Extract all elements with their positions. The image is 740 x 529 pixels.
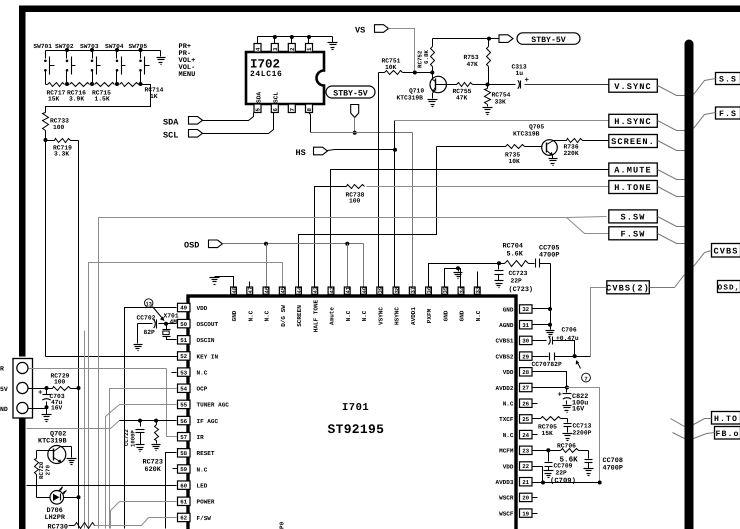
node R753 top junction <box>487 37 491 41</box>
svg-text:49: 49 <box>180 305 187 312</box>
resistor R735 <box>437 145 543 166</box>
node AVDD2 junction <box>565 386 569 390</box>
svg-text:HALF TONE: HALF TONE <box>312 299 319 332</box>
svg-text:4: 4 <box>255 47 262 51</box>
wire STBY flag drop <box>354 118 356 133</box>
op-amp U I701 ST92195 body <box>188 296 516 529</box>
svg-text:AGND: AGND <box>499 322 514 329</box>
page border left bar lower <box>19 419 26 529</box>
svg-text:LH2PR: LH2PR <box>45 514 66 522</box>
svg-text:CVBS: CVBS <box>713 246 738 256</box>
svg-text:KTC319B: KTC319B <box>397 95 424 102</box>
svg-text:SCREEN: SCREEN <box>296 305 303 327</box>
wire RC719 bus vertical <box>78 141 80 529</box>
I702 top pin 3 <box>271 37 279 53</box>
wire X701 to OSCIN <box>167 337 177 340</box>
switch SW705 <box>129 43 150 84</box>
svg-text:270: 270 <box>45 465 52 476</box>
svg-text:100: 100 <box>349 198 361 205</box>
svg-text:SCREEN.: SCREEN. <box>611 137 655 147</box>
svg-text:N.C: N.C <box>503 401 514 408</box>
node box S.SW <box>609 210 658 223</box>
I702 top pin 2 <box>288 37 296 53</box>
wire HSYNC line <box>395 121 609 287</box>
ground CC713 <box>563 434 573 441</box>
wire OCP net <box>110 389 177 529</box>
svg-text:IF AGC: IF AGC <box>197 418 219 425</box>
wire KEY-IN vertical from RC733 <box>45 141 47 357</box>
I701 left pin 62 F/SW <box>178 513 212 522</box>
svg-text:2: 2 <box>289 47 296 51</box>
wire pin24 stub <box>533 434 538 436</box>
svg-text:57: 57 <box>180 434 187 441</box>
resistor R736 <box>557 139 583 157</box>
node OSCOUT junction <box>164 322 168 326</box>
page border left bar upper <box>19 6 26 357</box>
crystal X701 <box>163 312 179 336</box>
resistor RC752 <box>417 39 435 73</box>
svg-text:4700P: 4700P <box>539 252 559 260</box>
svg-text:STBY-5V: STBY-5V <box>333 90 367 99</box>
I701 right pin 20 WSCR <box>499 493 532 502</box>
wire SCREEN into bus <box>658 141 685 151</box>
I702 bottom pin 6 <box>271 104 279 113</box>
svg-text:AVDD2: AVDD2 <box>495 385 513 392</box>
resistor RC754 <box>485 85 511 107</box>
svg-text:CC70782P: CC70782P <box>532 361 562 368</box>
wire LED to bus <box>64 497 79 499</box>
ground C703 <box>42 409 52 422</box>
svg-text:3.9K: 3.9K <box>69 96 84 103</box>
I701 right pin 27 AVDD2 <box>495 383 532 392</box>
capacitor CC722 <box>123 421 145 448</box>
svg-text:VDD: VDD <box>503 369 514 376</box>
resistor R753 <box>464 39 491 85</box>
svg-text:23: 23 <box>522 448 529 455</box>
svg-text:100: 100 <box>53 124 65 131</box>
svg-text:47K: 47K <box>467 61 479 68</box>
resistor RC751 <box>379 57 415 74</box>
svg-text:V.SYNC: V.SYNC <box>614 82 652 92</box>
switch SW701 <box>33 43 54 84</box>
I702 bottom pin 7 <box>288 104 296 113</box>
svg-text:16V: 16V <box>51 405 63 412</box>
node VS junction <box>413 71 435 75</box>
key labels PR+ PR- VOL+ VOL- MENU <box>179 43 196 79</box>
wire STBY top rail <box>433 38 499 40</box>
svg-text:16V: 16V <box>572 406 585 414</box>
wire MCFM line <box>533 450 549 452</box>
svg-text:21: 21 <box>522 479 529 486</box>
diode D706 LED <box>45 487 67 522</box>
svg-text:RC754: RC754 <box>492 92 511 99</box>
svg-text:GND: GND <box>503 306 514 313</box>
I701 top pin 36 PXFM <box>426 286 433 323</box>
svg-text:POWER: POWER <box>197 499 215 506</box>
switch SW702 <box>55 43 76 84</box>
svg-text:7: 7 <box>584 375 587 382</box>
net STBY-5V flag right <box>499 33 580 45</box>
node box CVBS(2) <box>606 281 650 294</box>
I701 right pin 21 AVDD3 <box>495 478 532 487</box>
wire TUNER AGC net <box>106 405 177 529</box>
switch SW704 <box>105 43 126 84</box>
svg-text:2200P: 2200P <box>573 429 592 436</box>
svg-text:N.C: N.C <box>503 432 514 439</box>
svg-text:Q710: Q710 <box>409 88 424 95</box>
svg-text:WSCF: WSCF <box>499 510 514 517</box>
svg-text:31: 31 <box>522 322 529 329</box>
wire A.MUTE into bus <box>658 170 685 180</box>
I701 left pin 61 POWER <box>178 497 215 506</box>
wire AVDD2 line <box>533 387 567 389</box>
resistor RC733 <box>43 113 70 141</box>
svg-text:A.MUTE: A.MUTE <box>614 166 652 176</box>
ground CC708 <box>584 469 594 476</box>
label bottom pin marker <box>279 521 286 529</box>
svg-text:54: 54 <box>180 385 187 392</box>
wire CC705 down <box>550 264 552 330</box>
svg-text:53: 53 <box>180 369 187 376</box>
wire HS to HSYNC vertical <box>328 150 395 151</box>
svg-text:F/SW: F/SW <box>197 515 212 522</box>
svg-text:R753: R753 <box>464 54 479 61</box>
I701 left pin 50 OSCOUT <box>178 319 219 328</box>
I702 top pin 4 <box>254 37 262 53</box>
svg-text:37: 37 <box>410 287 417 294</box>
svg-text:HSYNC: HSYNC <box>394 307 401 325</box>
I701 top pin 37 AVDD1 <box>409 287 416 325</box>
svg-text:8: 8 <box>306 108 313 112</box>
wire I702 top rail <box>258 35 333 39</box>
resistor RC715 <box>92 83 115 103</box>
svg-text:7: 7 <box>289 108 296 112</box>
svg-text:Q705: Q705 <box>529 124 544 131</box>
wire SCL to I702 pin6 <box>203 113 274 134</box>
wire S.SW into bus <box>658 217 685 227</box>
wire F.SW into bus <box>658 234 685 244</box>
node box SCREEN. <box>609 135 658 148</box>
svg-text:59: 59 <box>180 466 187 473</box>
capacitor CC723 <box>495 264 533 295</box>
wire 5V to RC729 <box>29 388 47 390</box>
capacitor CC709 <box>545 451 573 477</box>
wire IF AGC line <box>120 420 177 422</box>
svg-text:55: 55 <box>180 402 187 409</box>
ground RC723 <box>152 445 161 451</box>
capacitor CC702 <box>137 315 167 336</box>
svg-text:42: 42 <box>328 286 335 293</box>
svg-text:H.TONE: H.TONE <box>614 183 652 193</box>
node box V.SYNC <box>609 79 658 92</box>
I701 top pin 43 HALF TONE <box>312 286 319 332</box>
node RC729 bus junction <box>77 386 81 390</box>
wire IF AGC jog <box>27 421 120 429</box>
svg-text:61: 61 <box>180 499 187 506</box>
I701 left pin 57 IR <box>178 433 205 442</box>
node HS junction <box>393 148 397 152</box>
node gnd junction <box>45 405 49 409</box>
I701 left pin 51 OSCIN <box>178 336 215 345</box>
svg-text:AVDD1: AVDD1 <box>410 307 417 325</box>
node box F.SW right <box>694 107 740 129</box>
I701 top pin 34 GND <box>458 286 465 321</box>
svg-text:SW705: SW705 <box>129 43 148 50</box>
node RC723 junction <box>154 419 158 423</box>
resistor RC755 <box>447 83 488 102</box>
wire VSYNC vertical to pin39 <box>378 73 380 287</box>
node SCL flag <box>163 130 203 141</box>
svg-text:30: 30 <box>522 338 529 345</box>
svg-text:27: 27 <box>522 385 529 392</box>
ground Q702 <box>67 459 77 465</box>
node MCFM junction <box>546 448 550 452</box>
op-amp U I702 24LC16 EEPROM body <box>246 52 324 104</box>
wire H.SYNC into bus <box>658 121 685 131</box>
I701 left pin 52 KEY IN <box>178 352 219 361</box>
I701 top pin 41 N.C <box>344 286 351 321</box>
svg-text:22P: 22P <box>511 278 523 285</box>
svg-text:KTC319B: KTC319B <box>513 131 540 138</box>
I701 top pin 46 N.C <box>263 286 270 321</box>
I701 left pin 49 VDD <box>178 303 208 312</box>
svg-text:5.6K: 5.6K <box>507 250 524 258</box>
svg-text:5: 5 <box>255 108 262 112</box>
I701 left pin 53 N.C <box>178 368 208 377</box>
svg-text:52: 52 <box>180 353 187 360</box>
wire V.SYNC into bus <box>658 86 685 96</box>
svg-text:S.S: S.S <box>719 76 737 85</box>
wire F/SW net <box>95 518 177 526</box>
resistor RC729 <box>47 372 79 390</box>
svg-text:1000P: 1000P <box>129 430 136 447</box>
wire CVBS(2) into bus <box>650 275 685 288</box>
I701 right pin 32 GND <box>503 305 532 314</box>
svg-text:46: 46 <box>263 286 270 293</box>
svg-text:SCL: SCL <box>163 130 178 140</box>
svg-text:34: 34 <box>458 286 465 293</box>
svg-text:P0: P0 <box>279 521 286 529</box>
svg-text:+: + <box>38 389 43 397</box>
svg-text:H.SYNC: H.SYNC <box>614 117 652 127</box>
wire FSW fork diagonal <box>567 218 609 234</box>
node box H.TONE <box>609 181 658 194</box>
ground Q705 emitter <box>549 156 558 166</box>
svg-text:5V: 5V <box>0 386 8 393</box>
transistor Q710 <box>397 73 447 102</box>
svg-text:1K: 1K <box>150 93 158 100</box>
node CC722 junction <box>138 419 142 423</box>
node box F.SW <box>609 227 658 240</box>
svg-text:CC709: CC709 <box>554 462 573 469</box>
wire SSW FSW line <box>99 217 607 218</box>
wire pin20 stub <box>533 497 538 499</box>
svg-text:1u: 1u <box>516 70 524 77</box>
I701 right pin 25 TXCF <box>499 415 532 424</box>
node box A.MUTE <box>609 163 658 176</box>
I701 top pin 48 GND <box>231 286 238 321</box>
svg-text:MENU: MENU <box>179 71 196 79</box>
wire RC720 to LED <box>37 497 51 498</box>
svg-text:24LC16: 24LC16 <box>250 70 282 79</box>
svg-text:33K: 33K <box>495 99 507 106</box>
wire H.TONE into bus <box>658 187 685 197</box>
wire VDD49 line <box>125 308 177 529</box>
svg-text:C706: C706 <box>562 326 577 333</box>
svg-text:IR: IR <box>197 434 205 441</box>
svg-text:6.8K: 6.8K <box>423 50 430 64</box>
svg-text:44: 44 <box>296 286 303 293</box>
svg-text:SDA: SDA <box>256 92 263 103</box>
resistor RC719 <box>46 139 79 158</box>
I701 top pin 40 N.C <box>361 286 368 321</box>
svg-text:F.S: F.S <box>719 110 737 119</box>
svg-text:N.C: N.C <box>345 310 352 321</box>
svg-text:82P: 82P <box>144 329 156 336</box>
svg-text:56: 56 <box>180 418 187 425</box>
svg-text:MCFM: MCFM <box>499 448 514 455</box>
net STBY-5V flag left <box>326 86 375 118</box>
svg-text:F.SW: F.SW <box>621 230 646 240</box>
transistor Q705 <box>513 124 557 156</box>
svg-text:VSYNC: VSYNC <box>377 307 384 325</box>
ground Q710 emitter <box>428 93 438 107</box>
svg-text:39: 39 <box>377 286 384 293</box>
svg-text:22: 22 <box>522 463 529 470</box>
svg-text:4M: 4M <box>170 319 178 326</box>
svg-text:10K: 10K <box>509 158 521 165</box>
ground RC754 <box>483 108 493 115</box>
wire switch top rail <box>46 50 161 52</box>
node box H.SYNC <box>609 114 658 127</box>
svg-text:CVBS(2): CVBS(2) <box>606 284 650 294</box>
svg-text:VDD: VDD <box>503 463 514 470</box>
wire VS to collector node <box>389 29 415 73</box>
svg-text:10K: 10K <box>385 64 397 71</box>
svg-text:TUNER AGC: TUNER AGC <box>197 402 230 409</box>
svg-text:41: 41 <box>345 286 352 293</box>
I701 left pin 55 TUNER AGC <box>178 400 230 409</box>
capacitor CC707 <box>532 353 575 369</box>
svg-text:SDA: SDA <box>163 117 179 127</box>
node OSD junction pin41 <box>345 242 349 287</box>
svg-text:50: 50 <box>180 321 187 328</box>
svg-text:(C723): (C723) <box>509 286 533 294</box>
I702 bottom pin 8 <box>306 104 314 113</box>
node box S.SW right <box>694 73 740 95</box>
I701 top pin 33 N.C <box>474 286 481 321</box>
I701 left pin 59 N.C <box>178 465 208 474</box>
node C703 junction <box>45 386 49 390</box>
ground CC722 <box>136 445 145 452</box>
svg-text:RC704: RC704 <box>503 242 523 250</box>
resistor RC720 <box>35 451 52 497</box>
svg-text:SW704: SW704 <box>105 43 124 50</box>
ground switch rail <box>157 51 166 65</box>
svg-text:CC723: CC723 <box>509 270 528 277</box>
capacitor CC705 <box>536 244 560 267</box>
I701 top pin 38 HSYNC <box>393 286 400 325</box>
resistor RC706 <box>549 442 589 464</box>
wire OSD line <box>223 244 364 287</box>
I701 top pin 39 VSYNC <box>377 286 384 325</box>
svg-text:Amute: Amute <box>329 307 336 325</box>
I702 top pin 1 <box>306 37 314 53</box>
wire FBo stub left <box>673 433 685 439</box>
svg-text:62: 62 <box>180 515 187 522</box>
wire STBY rail down to pin37 <box>412 133 414 287</box>
I701 right pin 23 MCFM <box>499 446 532 455</box>
net OSD flag <box>184 240 223 250</box>
switch SW703 <box>80 43 101 84</box>
annotation circled 13 <box>145 299 165 321</box>
svg-text:OCP: OCP <box>197 386 208 393</box>
wire AVDD3 line <box>533 482 600 484</box>
svg-text:48: 48 <box>231 286 238 293</box>
wire OSCOUT line <box>167 323 177 325</box>
svg-text:RC730: RC730 <box>48 524 68 529</box>
capacitor C822 <box>558 388 589 414</box>
resistor RC738 <box>339 185 365 205</box>
wire VDD22 bracket <box>533 467 543 483</box>
resistor RC730 <box>48 523 95 529</box>
resistor RC705 <box>533 417 568 437</box>
annotation arrow and circled 7 <box>576 361 591 383</box>
wire pin59 stub <box>173 468 178 470</box>
svg-text:19: 19 <box>522 510 529 517</box>
svg-text:LED: LED <box>197 482 208 489</box>
svg-text:58: 58 <box>180 450 187 457</box>
page border top bar <box>19 6 740 13</box>
I701 right pin 19 WSCF <box>499 509 532 518</box>
wire HTO stub left <box>671 419 685 427</box>
capacitor C706 <box>533 326 579 344</box>
svg-text:KTC319B: KTC319B <box>38 437 67 445</box>
svg-text:6: 6 <box>272 108 279 112</box>
svg-text:RESET: RESET <box>197 450 215 457</box>
wire SCREEN net from pin44 <box>299 147 437 287</box>
I701 right pin 31 AGND <box>499 321 532 330</box>
node box H.TONE right <box>694 412 740 425</box>
wire PXFM net <box>429 264 499 287</box>
I701 left pin 54 OCP <box>178 384 208 393</box>
inter-sheet thick bus bar <box>685 40 694 529</box>
svg-text:38: 38 <box>393 286 400 293</box>
wire SCREEN line to box <box>583 140 609 142</box>
node AVDD3 junction left <box>541 481 545 485</box>
svg-text:GND: GND <box>442 310 449 321</box>
I701 top pin 44 SCREEN <box>296 286 303 327</box>
svg-text:AVDD3: AVDD3 <box>495 479 513 486</box>
I701 top pin 47 N.C <box>247 287 254 322</box>
I702 bottom pin 5 <box>254 104 262 113</box>
svg-text:I701: I701 <box>342 402 369 414</box>
wire RESET net <box>166 453 177 529</box>
svg-text:N.C: N.C <box>475 310 482 321</box>
svg-text:620K: 620K <box>145 466 162 474</box>
ground AGND <box>546 331 555 337</box>
svg-text:51: 51 <box>180 337 187 344</box>
svg-text:N.C: N.C <box>247 310 254 321</box>
capacitor C703 <box>38 389 65 412</box>
svg-text:1: 1 <box>306 47 313 51</box>
svg-text:35: 35 <box>442 286 449 293</box>
svg-text:1.5K: 1.5K <box>95 96 110 103</box>
node STBY rail junction <box>353 131 357 135</box>
wire AMUTE net <box>331 170 609 287</box>
node connector P701 <box>13 359 33 419</box>
I701 top pin 45 D/G SW <box>279 286 286 327</box>
